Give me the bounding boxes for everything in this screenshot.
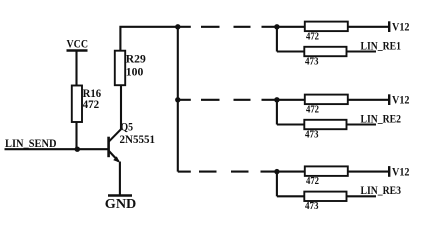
resistor 472 group2 [305,95,348,105]
node dot top of bus [175,24,180,29]
resistor 473 group2 [304,120,346,129]
svg-text:V12: V12 [392,164,410,178]
wire group2 bottom left [277,123,304,125]
node dot group1 [274,24,279,29]
wire group3 bottom right [347,195,377,197]
power terminal V12 group3 [388,166,390,177]
svg-text:2N5551: 2N5551 [120,132,156,146]
svg-text:LIN_RE2: LIN_RE2 [361,111,402,125]
svg-text:473: 473 [305,129,319,140]
svg-text:LIN_RE1: LIN_RE1 [361,38,402,52]
transistor Q5 [109,129,121,162]
svg-text:100: 100 [126,66,144,78]
power symbol VCC [67,51,88,86]
wire group1 top left [277,26,305,28]
resistor 473 group3 [304,192,346,201]
resistor 473 group1 [304,47,346,56]
svg-text:LIN_RE3: LIN_RE3 [361,183,402,197]
wire dashed row 1 [178,26,277,28]
wire group3 bottom left [277,195,304,197]
wire vertical bus [177,27,179,172]
wire group1 top right [348,26,389,28]
wire group1 bottom left [277,50,304,52]
svg-text:R29: R29 [126,54,146,66]
power terminal V12 group1 [388,21,390,32]
node dot group2 [274,97,279,102]
svg-text:472: 472 [306,31,319,42]
svg-text:472: 472 [83,99,100,111]
wire dashed row 3 [178,171,277,173]
svg-text:472: 472 [306,176,319,187]
svg-text:V12: V12 [392,93,410,107]
wire group2 top right [348,99,389,101]
svg-text:472: 472 [306,104,319,115]
wire LIN_SEND [5,148,109,150]
node dot middle of bus [175,97,180,102]
svg-text:473: 473 [305,56,319,67]
wire group2 bottom right [347,123,377,125]
wire group3 top left [277,171,305,173]
wire collector of Q5 up to R29 [120,86,122,130]
resistor R16 [72,86,82,123]
resistor 472 group1 [305,22,348,32]
wire R29 top [120,27,178,51]
node junction dot at R16/LIN_SEND [75,147,80,152]
svg-text:VCC: VCC [67,36,89,50]
wire group2 top left [277,99,305,101]
resistor 472 group3 [305,166,348,176]
svg-text:GND: GND [105,197,137,212]
wire R16 bottom to LIN_SEND node [75,122,77,149]
wire group3 left vertical [276,172,278,197]
wire dashed row 2 [178,99,277,101]
node dot group3 [274,169,279,174]
wire group3 top right [348,171,389,173]
wire group1 left vertical [276,27,278,52]
ground [108,194,132,197]
wire group1 bottom right [347,50,377,52]
wire group2 left vertical [276,100,278,125]
power terminal V12 group2 [388,94,390,105]
svg-text:473: 473 [305,201,319,212]
wire emitter of Q5 to ground [119,162,121,196]
svg-text:LIN_SEND: LIN_SEND [5,136,57,150]
svg-text:V12: V12 [392,20,410,34]
resistor R29 [115,51,125,85]
